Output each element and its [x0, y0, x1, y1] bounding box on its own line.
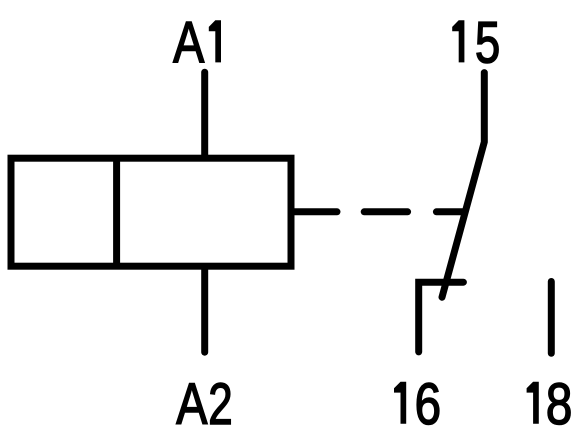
terminal lead A1 (wire) [201, 72, 208, 158]
svg-text:8: 8 [546, 372, 572, 437]
mechanical linkage dashed line segment 2 [364, 208, 407, 215]
label 18 [527, 382, 539, 424]
terminal lead A2 (wire) [201, 267, 208, 352]
mechanical linkage dashed line segment 1 [294, 208, 337, 215]
svg-text:A: A [176, 372, 208, 437]
coil divider line [113, 156, 120, 268]
svg-text:2: 2 [208, 371, 232, 437]
coil K1 (rectangle body) [11, 158, 291, 266]
svg-text:A: A [173, 10, 205, 75]
label 15 [452, 20, 464, 62]
svg-text:5: 5 [475, 11, 500, 76]
label A2 [176, 372, 208, 437]
label A1 [173, 10, 205, 75]
contact common lead 15 with moving arm [442, 73, 484, 298]
svg-text:6: 6 [415, 372, 441, 437]
label 16 [394, 382, 406, 424]
mechanical linkage dashed line segment 3 [436, 208, 462, 215]
NC contact terminal 16 (L-shaped lead) [419, 282, 464, 352]
NO contact terminal 18 (lead stub) [548, 282, 555, 354]
